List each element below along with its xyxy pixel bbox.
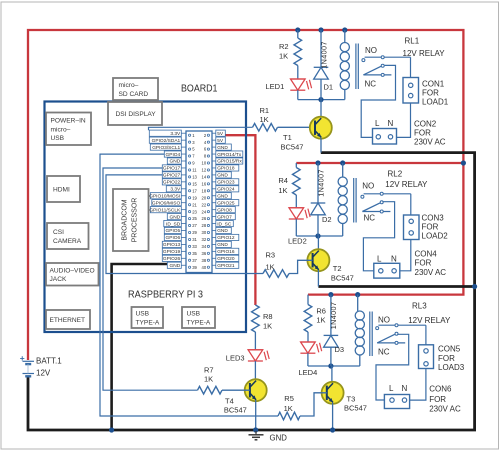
svg-text:R3: R3 <box>266 251 276 260</box>
svg-text:GPIO9/MISO: GPIO9/MISO <box>152 200 181 206</box>
svg-text:LOAD1: LOAD1 <box>422 98 449 107</box>
svg-text:GPIO20: GPIO20 <box>217 256 235 262</box>
svg-text:LOAD3: LOAD3 <box>438 363 465 372</box>
svg-text:CSI: CSI <box>53 229 64 236</box>
svg-text:RL1: RL1 <box>405 37 420 46</box>
svg-text:FOR: FOR <box>414 129 431 138</box>
svg-text:GPIO4: GPIO4 <box>166 152 181 158</box>
svg-text:N: N <box>402 384 408 393</box>
svg-text:R2: R2 <box>279 42 289 51</box>
svg-text:GPIO2/SDA1: GPIO2/SDA1 <box>152 138 181 144</box>
svg-text:CON4: CON4 <box>415 250 438 259</box>
svg-text:29: 29 <box>192 230 197 235</box>
svg-text:T4: T4 <box>225 397 234 406</box>
svg-text:CON5: CON5 <box>438 345 461 354</box>
svg-text:16: 16 <box>202 181 207 186</box>
svg-text:1K: 1K <box>278 186 287 195</box>
svg-text:GPIO13: GPIO13 <box>163 242 181 248</box>
svg-text:GPIO14/Tx: GPIO14/Tx <box>217 152 242 158</box>
svg-text:micro–: micro– <box>51 126 71 133</box>
svg-text:1K: 1K <box>266 263 275 272</box>
svg-text:GND: GND <box>170 159 181 165</box>
svg-text:SD CARD: SD CARD <box>119 91 149 98</box>
svg-text:36: 36 <box>202 251 207 256</box>
svg-text:R5: R5 <box>284 394 294 403</box>
svg-text:1K: 1K <box>316 315 325 324</box>
svg-text:GPIO6: GPIO6 <box>166 235 181 241</box>
svg-text:21: 21 <box>192 202 197 207</box>
svg-text:19: 19 <box>192 195 197 200</box>
svg-text:GND: GND <box>217 228 228 234</box>
svg-text:230V AC: 230V AC <box>415 268 447 277</box>
svg-text:12V RELAY: 12V RELAY <box>385 180 428 189</box>
svg-text:R7: R7 <box>204 366 214 375</box>
svg-text:BC547: BC547 <box>331 274 354 283</box>
svg-text:GPIO16: GPIO16 <box>217 249 235 255</box>
svg-text:1K: 1K <box>263 322 272 331</box>
svg-text:GND: GND <box>217 145 228 151</box>
svg-text:15: 15 <box>192 181 197 186</box>
svg-text:35: 35 <box>192 251 197 256</box>
svg-text:GPIO12: GPIO12 <box>217 235 235 241</box>
svg-text:5V: 5V <box>217 138 224 144</box>
svg-text:LED2: LED2 <box>288 237 307 246</box>
svg-text:NC: NC <box>365 80 377 89</box>
svg-text:39: 39 <box>192 265 197 270</box>
svg-text:GND: GND <box>170 263 181 269</box>
svg-text:GPIO17: GPIO17 <box>163 166 181 172</box>
svg-text:R1: R1 <box>260 106 270 115</box>
svg-text:L: L <box>389 384 394 393</box>
svg-text:1N4007: 1N4007 <box>329 302 338 330</box>
svg-text:GPIO25: GPIO25 <box>217 200 235 206</box>
svg-text:31: 31 <box>192 237 197 242</box>
svg-text:BOARD1: BOARD1 <box>181 84 218 95</box>
svg-text:37: 37 <box>192 258 197 263</box>
svg-text:GPIO19: GPIO19 <box>163 249 181 255</box>
svg-text:230V AC: 230V AC <box>429 405 461 414</box>
svg-text:NO: NO <box>362 181 374 190</box>
svg-text:ETHERNET: ETHERNET <box>50 317 86 324</box>
svg-text:FOR: FOR <box>422 223 439 232</box>
svg-text:GPIO3/SCL1: GPIO3/SCL1 <box>152 145 180 151</box>
svg-text:BATT.1: BATT.1 <box>36 357 62 366</box>
svg-text:17: 17 <box>192 188 197 193</box>
svg-text:LED1: LED1 <box>266 82 285 91</box>
svg-text:AUDIO–VIDEO: AUDIO–VIDEO <box>50 267 95 274</box>
svg-text:GPIO7: GPIO7 <box>217 214 232 220</box>
svg-text:GND: GND <box>170 214 181 220</box>
svg-text:GND: GND <box>217 193 228 199</box>
svg-text:LED3: LED3 <box>226 354 245 363</box>
svg-text:RL2: RL2 <box>388 170 403 179</box>
svg-text:FOR: FOR <box>422 89 439 98</box>
svg-text:LOAD2: LOAD2 <box>422 232 449 241</box>
svg-text:LED4: LED4 <box>299 368 318 377</box>
svg-text:1K: 1K <box>204 375 213 384</box>
svg-text:T3: T3 <box>347 395 356 404</box>
svg-text:FOR: FOR <box>429 395 446 404</box>
svg-text:30: 30 <box>202 230 207 235</box>
svg-text:BROADCOM: BROADCOM <box>122 199 129 240</box>
svg-text:TYPE-A: TYPE-A <box>136 319 160 326</box>
svg-text:L: L <box>377 255 382 264</box>
svg-text:10: 10 <box>202 161 207 166</box>
svg-text:38: 38 <box>202 258 207 263</box>
svg-text:GND: GND <box>217 242 228 248</box>
svg-text:27: 27 <box>192 223 197 228</box>
svg-text:1N4007: 1N4007 <box>320 41 329 69</box>
svg-text:24: 24 <box>202 209 207 214</box>
svg-text:33: 33 <box>192 244 197 249</box>
svg-text:ID_SD: ID_SD <box>166 221 181 227</box>
svg-text:1K: 1K <box>284 404 293 413</box>
svg-text:1K: 1K <box>279 52 288 61</box>
svg-text:12V: 12V <box>36 369 51 378</box>
svg-text:D2: D2 <box>322 215 332 224</box>
svg-text:BC547: BC547 <box>224 406 247 415</box>
svg-text:GPIO8: GPIO8 <box>217 207 232 213</box>
svg-text:5V: 5V <box>217 131 224 137</box>
svg-text:RL3: RL3 <box>412 302 427 311</box>
svg-text:N: N <box>391 255 397 264</box>
svg-text:12V RELAY: 12V RELAY <box>403 49 446 58</box>
svg-text:T2: T2 <box>333 264 342 273</box>
svg-text:34: 34 <box>202 244 207 249</box>
svg-text:micro–: micro– <box>119 82 139 89</box>
svg-text:GPIO15/Rx: GPIO15/Rx <box>217 159 242 165</box>
svg-text:32: 32 <box>202 237 207 242</box>
svg-text:NC: NC <box>378 348 390 357</box>
svg-text:3.3V: 3.3V <box>170 187 181 193</box>
svg-text:NC: NC <box>364 214 376 223</box>
svg-text:PROCESSOR: PROCESSOR <box>132 198 139 243</box>
svg-text:GPIO5: GPIO5 <box>166 228 181 234</box>
svg-text:NO: NO <box>378 315 390 324</box>
svg-text:25: 25 <box>192 216 197 221</box>
svg-text:14: 14 <box>202 175 207 180</box>
svg-text:USB: USB <box>51 135 65 142</box>
svg-text:GND: GND <box>270 434 288 443</box>
svg-text:230V AC: 230V AC <box>414 138 446 147</box>
svg-text:RASPBERRY PI 3: RASPBERRY PI 3 <box>128 289 203 301</box>
svg-text:26: 26 <box>202 216 207 221</box>
svg-text:12V RELAY: 12V RELAY <box>408 316 451 325</box>
svg-text:40: 40 <box>202 265 207 270</box>
svg-text:GPIO23: GPIO23 <box>217 180 235 186</box>
svg-text:1K: 1K <box>260 115 269 124</box>
svg-text:CON6: CON6 <box>429 385 452 394</box>
svg-text:BC547: BC547 <box>281 143 304 152</box>
svg-text:CON2: CON2 <box>414 120 437 129</box>
svg-text:USB: USB <box>187 311 201 318</box>
svg-text:23: 23 <box>192 209 197 214</box>
svg-text:1N4007: 1N4007 <box>317 169 326 197</box>
svg-text:GPIO21: GPIO21 <box>217 263 235 269</box>
svg-text:GPIO22: GPIO22 <box>163 180 181 186</box>
svg-text:USB: USB <box>136 311 150 318</box>
svg-text:ID_SC: ID_SC <box>217 221 232 227</box>
svg-text:CON1: CON1 <box>422 80 445 89</box>
svg-text:POWER–IN: POWER–IN <box>51 118 86 125</box>
svg-text:GPIO26: GPIO26 <box>163 256 181 262</box>
svg-text:FOR: FOR <box>438 354 455 363</box>
svg-text:12: 12 <box>202 168 207 173</box>
svg-text:BC547: BC547 <box>344 404 367 413</box>
svg-text:FOR: FOR <box>415 259 432 268</box>
svg-text:NO: NO <box>365 46 377 55</box>
svg-text:11: 11 <box>192 168 197 173</box>
svg-text:D3: D3 <box>335 345 345 354</box>
svg-text:GND: GND <box>217 173 228 179</box>
svg-text:GPIO10/MOSI: GPIO10/MOSI <box>149 193 180 199</box>
svg-text:28: 28 <box>202 223 207 228</box>
svg-text:R6: R6 <box>316 306 326 315</box>
svg-text:CAMERA: CAMERA <box>53 238 82 245</box>
svg-text:HDMI: HDMI <box>53 187 70 194</box>
svg-text:GPIO18: GPIO18 <box>217 166 235 172</box>
svg-text:TYPE-A: TYPE-A <box>187 319 211 326</box>
svg-text:T1: T1 <box>283 133 292 142</box>
svg-text:20: 20 <box>202 195 207 200</box>
svg-text:D1: D1 <box>324 83 334 92</box>
svg-text:L: L <box>375 119 380 128</box>
svg-text:GPIO27: GPIO27 <box>163 173 181 179</box>
svg-text:N: N <box>388 119 394 128</box>
svg-text:13: 13 <box>192 175 197 180</box>
svg-text:R8: R8 <box>263 312 273 321</box>
svg-text:R4: R4 <box>278 176 288 185</box>
svg-text:GPIO24: GPIO24 <box>217 187 235 193</box>
svg-text:JACK: JACK <box>50 276 67 283</box>
svg-text:GPIO11/SCLK: GPIO11/SCLK <box>149 207 181 213</box>
svg-text:3.3V: 3.3V <box>170 131 181 137</box>
svg-text:22: 22 <box>202 202 207 207</box>
svg-text:DSI DISPLAY: DSI DISPLAY <box>116 111 157 118</box>
svg-text:18: 18 <box>202 188 207 193</box>
svg-text:CON3: CON3 <box>422 214 445 223</box>
